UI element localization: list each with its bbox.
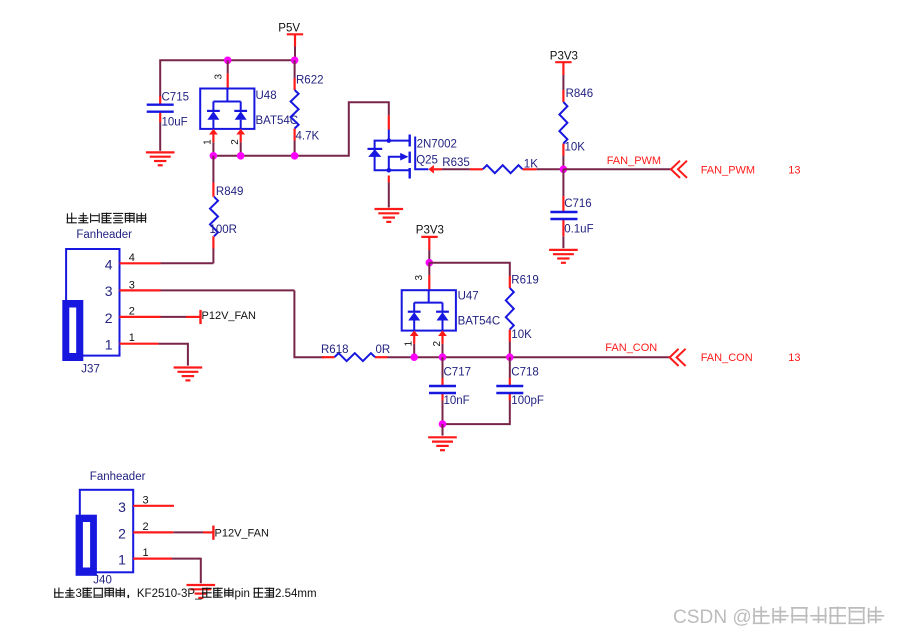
wire pin2 J40	[173, 531, 203, 533]
net label FAN_CON	[605, 342, 657, 354]
pin number 1 U48	[203, 139, 214, 145]
node FAN_PWM junction	[560, 166, 568, 174]
svg-text:pin: pin	[235, 588, 250, 600]
label C715	[162, 91, 190, 103]
port pin 13 FAN_PWM	[788, 165, 800, 177]
resistor R846	[559, 102, 567, 144]
diode pair U47 box	[402, 290, 456, 330]
wire pin3 stub	[227, 60, 229, 88]
label 0R	[376, 344, 391, 356]
svg-text:U48: U48	[256, 90, 277, 102]
connector J40 body	[80, 490, 133, 573]
port FAN_PWM chevron	[671, 161, 687, 178]
svg-text:1: 1	[129, 332, 135, 344]
ground J40	[187, 585, 216, 598]
svg-text:2: 2	[143, 521, 149, 533]
label BAT54C U47	[458, 316, 501, 328]
pin 1 U47	[410, 330, 419, 343]
pin 3 J40	[133, 505, 174, 507]
node U48 pin3 junction	[224, 57, 232, 65]
annotation fan 3-pin socket	[54, 588, 317, 601]
wire P3V3 mid to junction	[428, 250, 430, 263]
ground J37	[174, 368, 203, 381]
svg-text:R635: R635	[442, 157, 470, 169]
connector J37 body	[66, 249, 119, 356]
label R635	[442, 157, 470, 169]
wire pin3 J37	[161, 289, 295, 291]
wire bus to C718	[509, 357, 511, 378]
svg-text:3: 3	[213, 74, 224, 80]
pin 2 U48	[236, 129, 245, 142]
resistor R618	[335, 353, 376, 361]
capacitor C715	[147, 105, 174, 112]
node R622 bottom junction	[291, 152, 299, 160]
node R619 bus junction	[506, 353, 514, 361]
port FAN_CON chevron	[670, 349, 686, 366]
svg-text:100pF: 100pF	[511, 395, 544, 407]
svg-text:3: 3	[414, 275, 425, 281]
svg-text:FAN_PWM: FAN_PWM	[607, 155, 661, 167]
node P3V3 mid junction	[426, 259, 434, 267]
resistor R622 pins	[294, 60, 296, 156]
annotation fan 4-pin socket	[67, 213, 147, 223]
node U47 pin2 bus junction	[439, 353, 447, 361]
svg-text:C716: C716	[564, 198, 592, 210]
pin number 2 U47	[432, 341, 443, 347]
svg-text:10K: 10K	[565, 142, 586, 154]
node P5V R622 junction	[291, 57, 299, 65]
wire U47 pin1 down	[413, 344, 415, 357]
svg-text:0R: 0R	[376, 344, 391, 356]
capacitor C716	[550, 212, 577, 219]
wire C717 to bottom rail	[442, 401, 444, 425]
net label FAN_PWM	[607, 155, 661, 167]
svg-text:2: 2	[230, 139, 241, 145]
svg-text:P3V3: P3V3	[416, 225, 444, 237]
svg-text:1: 1	[203, 139, 214, 145]
label Fanheader J40	[90, 471, 146, 483]
label J37	[81, 364, 100, 376]
svg-text:10uF: 10uF	[162, 116, 188, 128]
connector J40 key	[76, 515, 97, 576]
svg-text:0.1uF: 0.1uF	[564, 223, 593, 235]
svg-text:3: 3	[76, 588, 82, 600]
svg-text:2: 2	[118, 525, 126, 541]
power P3V3 top	[550, 50, 578, 75]
pin number 3 J37	[129, 280, 135, 292]
wire to Q25 drain	[388, 115, 390, 140]
label 10uF	[162, 116, 188, 128]
svg-text:13: 13	[788, 352, 800, 364]
label 10K R846	[565, 142, 586, 154]
watermark CSDN	[673, 607, 884, 629]
wire R846 to node	[562, 156, 564, 170]
wire node to C716	[562, 169, 564, 196]
wire U48 pin1 down	[212, 142, 214, 156]
label Fanheader J37	[76, 229, 132, 241]
resistor R849 pins	[212, 156, 214, 263]
label 2N7002	[417, 138, 457, 150]
resistor R849	[210, 197, 218, 237]
svg-text:100R: 100R	[210, 224, 238, 236]
label Q25	[416, 154, 438, 166]
svg-text:1K: 1K	[524, 158, 538, 170]
node bottom rail junction	[439, 420, 447, 428]
port label FAN_PWM	[701, 165, 755, 177]
svg-text:R849: R849	[216, 186, 244, 198]
svg-text:10nF: 10nF	[444, 395, 470, 407]
diode pair U47 internals	[408, 290, 449, 330]
pin name 3 J37	[105, 283, 113, 299]
wire gate to R635	[442, 168, 470, 170]
pin number 2 J37	[129, 306, 135, 318]
capacitor C717	[429, 386, 456, 393]
capacitor C718 pins	[509, 378, 511, 401]
label 1K	[524, 158, 538, 170]
pin 2 J37	[120, 316, 161, 318]
svg-text:P12V_FAN: P12V_FAN	[202, 310, 256, 322]
wire P5V to top rail	[294, 47, 296, 61]
svg-text:J37: J37	[81, 364, 100, 376]
label U47	[458, 291, 479, 303]
label C718	[511, 367, 539, 379]
wire R635 to FAN_PWM node	[537, 168, 564, 170]
svg-text:P5V: P5V	[278, 22, 300, 34]
svg-text:C715: C715	[162, 91, 190, 103]
svg-text:R846: R846	[566, 88, 594, 100]
pin name 1 J40	[118, 552, 126, 568]
power port P12V_FAN J40	[203, 526, 269, 540]
capacitor C715 pins	[159, 96, 161, 122]
resistor R619	[506, 288, 514, 330]
wire pin4 to R849	[161, 262, 214, 264]
wire C716 to ground	[562, 236, 564, 248]
resistor R622	[291, 90, 299, 129]
pin number 2 J40	[143, 521, 149, 533]
wire pin1 to ground J40	[172, 559, 201, 584]
svg-text:4.7K: 4.7K	[296, 130, 320, 142]
svg-text:1: 1	[404, 341, 415, 347]
svg-text:P3V3: P3V3	[550, 50, 578, 62]
label 100R	[210, 224, 238, 236]
port label FAN_CON	[701, 352, 753, 364]
connector J37 key	[62, 300, 83, 361]
wire U47 pin2 down	[442, 344, 444, 357]
port pin 13 FAN_CON	[788, 352, 800, 364]
svg-text:C717: C717	[444, 367, 472, 379]
node U48 pin1 junction	[210, 152, 218, 160]
wire junction to U47 pin3	[428, 263, 430, 291]
svg-text:C718: C718	[511, 367, 539, 379]
label 10nF	[444, 395, 470, 407]
ground C717 C718	[428, 437, 457, 450]
pin number 1 U47	[404, 341, 415, 347]
wire pin2 J37	[161, 316, 187, 318]
resistor R618 pins	[322, 356, 388, 358]
diode pair U48 internals	[207, 89, 247, 129]
pin number 2 U48	[230, 139, 241, 145]
power P5V	[278, 22, 303, 46]
svg-text:13: 13	[788, 165, 800, 177]
label R846	[566, 88, 594, 100]
label R849	[216, 186, 244, 198]
label 4.7K	[296, 130, 320, 142]
label 0.1uF	[564, 223, 593, 235]
capacitor C717 pins	[441, 378, 443, 401]
label C717	[444, 367, 472, 379]
svg-text:CSDN @: CSDN @	[673, 607, 752, 628]
wire junction to R619	[429, 263, 510, 276]
svg-text:1: 1	[118, 552, 126, 568]
pin 1 J40	[133, 557, 172, 559]
pin number 1 J40	[143, 547, 149, 559]
svg-text:KF2510-3P_: KF2510-3P_	[137, 588, 202, 600]
wire C718 to bottom rail	[443, 401, 510, 425]
wire FAN_PWM to port	[563, 168, 670, 170]
svg-text:R618: R618	[321, 344, 349, 356]
svg-text:2.54mm: 2.54mm	[275, 588, 317, 600]
pin name 2 J40	[118, 525, 126, 541]
svg-text:Fanheader: Fanheader	[90, 471, 146, 483]
svg-text:1: 1	[105, 337, 113, 353]
label R618	[321, 344, 349, 356]
svg-text:3: 3	[118, 499, 126, 515]
capacitor C716 pins	[562, 196, 564, 236]
pin name 1 J37	[105, 337, 113, 353]
svg-text:FAN_PWM: FAN_PWM	[701, 165, 755, 177]
label J40	[93, 575, 112, 587]
pin arrow Q25 gate	[428, 165, 442, 174]
label BAT54C U48	[256, 115, 299, 127]
svg-text:2: 2	[432, 341, 443, 347]
resistor R846 pins	[562, 90, 564, 156]
svg-text:J40: J40	[93, 575, 112, 587]
wire FAN_CON bus	[388, 356, 671, 358]
svg-text:R622: R622	[296, 75, 324, 87]
wire J37 pin3 to R618	[294, 290, 324, 357]
wire C715 to ground	[159, 122, 161, 151]
label R619	[511, 275, 539, 287]
pin name 3 J40	[118, 499, 126, 515]
ground C716	[549, 250, 578, 263]
pin number 3 U48	[213, 74, 224, 80]
svg-text:FAN_CON: FAN_CON	[701, 352, 753, 364]
svg-text:10K: 10K	[511, 329, 532, 341]
transistor Q25	[368, 135, 429, 179]
label U48	[256, 90, 277, 102]
node U47 pin1 bus junction	[410, 353, 418, 361]
pin name 4 J37	[105, 256, 113, 272]
power P3V3 mid	[416, 225, 444, 250]
svg-text:3: 3	[143, 494, 149, 506]
pin 2 J40	[133, 531, 173, 533]
svg-text:2N7002: 2N7002	[417, 138, 457, 150]
svg-text:R619: R619	[511, 275, 539, 287]
pin number 3 J40	[143, 494, 149, 506]
svg-text:U47: U47	[458, 291, 479, 303]
svg-text:2: 2	[105, 310, 113, 326]
node U48 pin2 junction	[237, 152, 245, 160]
wire Q25 source to ground	[388, 176, 390, 208]
label R622	[296, 75, 324, 87]
label 10K R619	[511, 329, 532, 341]
wire bus to C717	[442, 357, 444, 378]
ground C715	[146, 152, 175, 165]
wire pin1 to ground J37	[159, 344, 188, 366]
wire U48 pin2 down	[240, 142, 242, 156]
pin number 4 J37	[129, 252, 135, 264]
wire P3V3 to R846	[562, 75, 564, 90]
wire top rail	[160, 60, 294, 97]
resistor R619 pins	[509, 276, 511, 357]
diode pair U48 box	[200, 89, 254, 129]
pin number 1 J37	[129, 332, 135, 344]
svg-text:BAT54C: BAT54C	[458, 316, 501, 328]
label C716	[564, 198, 592, 210]
svg-text:P12V_FAN: P12V_FAN	[215, 528, 269, 540]
wire U48 bottom rail	[213, 102, 388, 156]
pin name 2 J37	[105, 310, 113, 326]
pin 1 J37	[120, 343, 159, 345]
capacitor C718	[496, 386, 523, 393]
svg-text:Fanheader: Fanheader	[76, 229, 132, 241]
svg-text:3: 3	[105, 283, 113, 299]
resistor R635 pins	[470, 168, 537, 170]
wire to ground C717	[442, 424, 444, 436]
resistor R635	[483, 165, 523, 173]
svg-text:1: 1	[143, 547, 149, 559]
ground Q25	[375, 209, 404, 222]
pin 1 U48	[209, 129, 218, 142]
pin 4 J37	[120, 262, 161, 264]
pin number 3 U47	[414, 275, 425, 281]
pin 3 J37	[120, 289, 161, 291]
power port P12V_FAN J37	[186, 310, 256, 324]
svg-text:4: 4	[105, 256, 113, 272]
label 100pF	[511, 395, 544, 407]
svg-text:Q25: Q25	[416, 154, 438, 166]
svg-text:FAN_CON: FAN_CON	[605, 342, 657, 354]
pin 2 U47	[438, 330, 447, 343]
